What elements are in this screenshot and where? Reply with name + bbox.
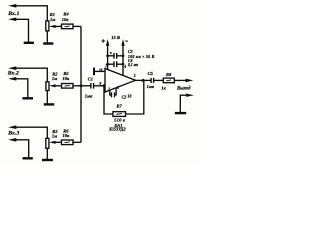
wire output lead: [136, 79, 151, 81]
wire R6 to bus: [73, 141, 81, 143]
svg-text:15 В: 15 В: [111, 35, 120, 40]
node Выход ground terminal arrow: [186, 94, 194, 97]
svg-text:1м: 1м: [52, 134, 57, 139]
capacitor C5: [150, 78, 152, 83]
svg-text:C2: C2: [122, 94, 127, 99]
wire non-inverting input: [95, 70, 105, 72]
node Вх.3 terminal arrow (ground side): [8, 138, 16, 142]
label minus: [125, 40, 128, 42]
node Вх.1 terminal arrow (ground side): [8, 18, 16, 22]
resistor R7: [113, 112, 126, 117]
svg-text:1: 1: [108, 88, 110, 92]
node +supply arrow: [106, 39, 109, 46]
node Выход terminal arrow: [186, 79, 194, 83]
wire Вх.1 signal to R1 top: [15, 6, 47, 21]
node -supply arrow: [121, 39, 124, 46]
resistor R4: [62, 24, 74, 29]
ground (Вх.3 terminal): [23, 157, 33, 159]
node Вх.3 terminal arrow (signal): [8, 125, 16, 129]
resistor R5: [62, 84, 74, 89]
wire C1 to inverting node: [94, 85, 104, 87]
wire feedback right side: [126, 80, 144, 114]
node Вх.2 terminal arrow (signal): [8, 66, 16, 70]
svg-text:1м: 1м: [52, 76, 57, 81]
svg-text:10к: 10к: [63, 133, 71, 138]
label C3 polarity plus: [110, 52, 112, 54]
node Вх.2 terminal arrow (ground side): [8, 77, 16, 81]
wire R1 bottom to ground: [46, 31, 48, 43]
svg-text:1к: 1к: [161, 86, 166, 91]
wire Выход ground terminal: [180, 95, 187, 112]
svg-text:Выход: Выход: [176, 87, 191, 92]
svg-text:10: 10: [127, 94, 131, 99]
svg-text:1м: 1м: [50, 17, 55, 22]
svg-text:R8: R8: [166, 72, 172, 77]
resistor R1 wiper arrow: [49, 25, 56, 28]
capacitor C4: [113, 61, 115, 67]
wire feedback left vertical: [104, 86, 113, 114]
wire Вх.2 ground terminal down: [15, 79, 28, 98]
svg-text:1мк: 1мк: [147, 84, 155, 89]
resistor R6: [62, 140, 74, 145]
resistor R2 wiper arrow: [49, 84, 56, 87]
node Вх.1 terminal arrow (signal): [8, 4, 16, 8]
svg-text:R7: R7: [117, 104, 123, 109]
op-amp DA1 triangle: [105, 69, 136, 93]
wire +supply lead: [107, 44, 109, 69]
svg-text:8: 8: [117, 86, 119, 90]
svg-text:К153УД2: К153УД2: [108, 127, 125, 132]
wire R4 to bus: [73, 25, 81, 27]
ground (R3): [42, 159, 53, 161]
capacitor C3: [113, 53, 115, 59]
svg-text:Вх.1: Вх.1: [7, 11, 19, 17]
wire Вх.3 ground terminal down: [15, 140, 29, 157]
resistor R2 potentiometer body: [46, 82, 49, 91]
wire R2 bottom to ground: [46, 91, 48, 104]
svg-text:10: 10: [99, 68, 103, 72]
label +15В plus: [101, 39, 105, 43]
node inverting input junction: [102, 84, 105, 87]
resistor R1 potentiometer body: [46, 21, 49, 31]
wire R8 to output arrow: [174, 79, 186, 81]
resistor R8: [163, 78, 174, 83]
svg-text:7: 7: [105, 64, 107, 68]
resistor R3 potentiometer body: [46, 138, 49, 148]
wire Вх.3 signal to R3 top: [15, 127, 47, 138]
svg-text:4: 4: [123, 65, 126, 69]
svg-text:Вх.2: Вх.2: [7, 70, 19, 76]
svg-text:510 к: 510 к: [114, 118, 125, 123]
ground (R1): [43, 42, 53, 44]
ground (Вх.2 terminal): [22, 97, 33, 99]
svg-text:C5: C5: [148, 71, 154, 76]
svg-text:5: 5: [134, 74, 136, 78]
wire Вх.1 ground terminal down: [15, 19, 29, 42]
wire R3 bottom to ground: [46, 148, 48, 159]
svg-text:Вх.3: Вх.3: [7, 131, 19, 137]
svg-text:0,1 мк: 0,1 мк: [128, 63, 138, 67]
wire C5 to R8: [154, 79, 164, 81]
wire Вх.2 signal to R2 top: [15, 68, 47, 82]
ground (Выход terminal): [175, 112, 186, 114]
capacitor C2 compensation leads: [110, 90, 111, 95]
capacitor C1: [90, 83, 92, 89]
svg-text:1мк: 1мк: [85, 93, 93, 98]
svg-text:10к: 10к: [62, 17, 69, 22]
wire bus to C1: [81, 85, 91, 87]
svg-text:10к: 10к: [63, 76, 71, 81]
node output/feedback junction: [142, 79, 145, 82]
wire summing bus: [80, 26, 82, 142]
node bus/R5 junction: [80, 84, 83, 87]
wire R5 to bus junction: [73, 85, 81, 87]
svg-text:9: 9: [100, 82, 102, 86]
ground (non-inverting input): [93, 68, 95, 76]
svg-text:C1: C1: [88, 76, 93, 81]
ground (Вх.1 terminal): [24, 42, 34, 44]
ground (R2): [44, 103, 54, 105]
resistor R3 wiper arrow: [49, 141, 56, 144]
wire -supply lead: [122, 44, 124, 75]
